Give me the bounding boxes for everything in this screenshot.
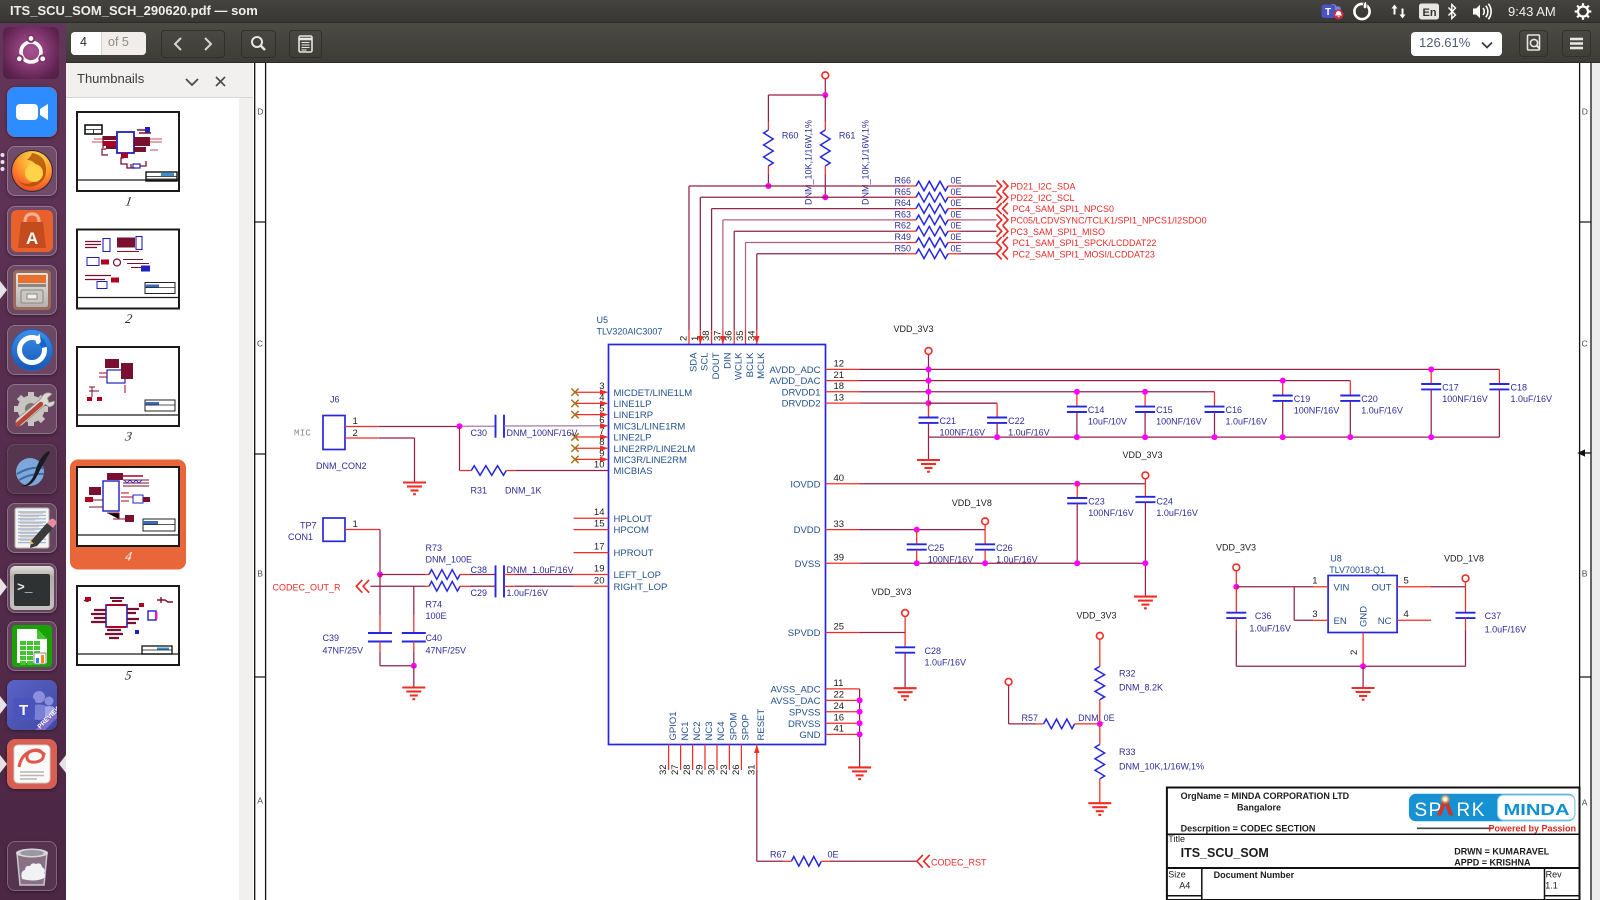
svg-text:3: 3 <box>123 429 134 444</box>
svg-text:DRVSS: DRVSS <box>788 719 821 730</box>
node PD21_I2C_SDA <box>997 180 1076 191</box>
svg-text:R50: R50 <box>894 243 911 253</box>
svg-text:15: 15 <box>594 519 605 530</box>
svg-text:0E: 0E <box>951 209 962 219</box>
wire OUT net <box>1397 576 1465 587</box>
capacitor C24 1.0uF/16V <box>1135 484 1198 597</box>
bluetooth <box>1449 5 1456 19</box>
resistor R73 DNM_100E <box>380 543 496 579</box>
menu button <box>1562 30 1591 57</box>
svg-text:C28: C28 <box>925 646 942 656</box>
wire GND pin2 <box>1349 632 1363 666</box>
svg-text:DRWN = KUMARAVEL: DRWN = KUMARAVEL <box>1454 846 1549 856</box>
svg-text:R31: R31 <box>471 486 488 496</box>
svg-text:DRVDD1: DRVDD1 <box>782 387 821 398</box>
svg-text:21: 21 <box>834 370 845 381</box>
capacitor C38 DNM_1.0uF/16V <box>471 565 609 597</box>
svg-text:1.0uF/16V: 1.0uF/16V <box>507 588 549 598</box>
junction TP7/left_lop <box>377 572 383 578</box>
capacitor C26 1.0uF/16V <box>975 530 1038 565</box>
label VDD_3V3 r32 <box>1077 611 1117 621</box>
wire bottom rail caps <box>929 436 1500 438</box>
wire bus PC2_SAM_SPI1_MOSI/LCDDAT23 <box>757 254 906 345</box>
svg-text:1.0uF/16V: 1.0uF/16V <box>1226 417 1268 427</box>
svg-text:DNM_10K,1/16W,1%: DNM_10K,1/16W,1% <box>1119 761 1204 771</box>
svg-text:PC3_SAM_SPI1_MISO: PC3_SAM_SPI1_MISO <box>1011 227 1106 237</box>
svg-text:CON1: CON1 <box>288 532 313 542</box>
capacitor C14 10uF/10V <box>1067 389 1127 440</box>
svg-text:1: 1 <box>690 336 701 341</box>
svg-text:MIC3R/LINE2RM: MIC3R/LINE2RM <box>614 455 687 466</box>
wire rail pin18 <box>860 391 1215 393</box>
svg-text:U5: U5 <box>597 315 609 325</box>
svg-text:DNM_8.2K: DNM_8.2K <box>1119 682 1163 692</box>
svg-text:AVSS_ADC: AVSS_ADC <box>771 685 821 696</box>
svg-text:B: B <box>1582 569 1588 579</box>
svg-text:38: 38 <box>701 330 712 341</box>
svg-text:14: 14 <box>594 507 605 518</box>
capacitor C25 100NF/16V <box>907 530 974 565</box>
svg-text:C36: C36 <box>1255 611 1272 621</box>
testpoint TP7 CON1 <box>288 518 358 542</box>
off-sheet arrow on right frame <box>1577 449 1591 456</box>
svg-text:18: 18 <box>834 381 845 392</box>
svg-text:EN: EN <box>1334 616 1347 627</box>
svg-text:NC1: NC1 <box>680 721 691 740</box>
svg-text:DNM_10K,1/16W,1%: DNM_10K,1/16W,1% <box>861 120 871 205</box>
svg-text:D: D <box>1582 107 1588 117</box>
wire top node <box>768 94 825 96</box>
svg-text:1.0uF/16V: 1.0uF/16V <box>1156 508 1198 518</box>
junction R61/bus <box>822 194 828 200</box>
svg-text:C: C <box>1582 339 1588 349</box>
pin 12 AVDD_ADC <box>769 359 859 376</box>
power VDD_1V8 dvdd <box>982 518 989 530</box>
svg-text:OUT: OUT <box>1371 582 1391 593</box>
pin 9 MIC3R/LINE2RM <box>571 448 687 466</box>
svg-text:Powered by Passion: Powered by Passion <box>1488 824 1576 834</box>
capacitor C29 1.0uF/16V <box>471 586 609 598</box>
svg-text:VIN: VIN <box>1334 582 1350 593</box>
svg-text:R62: R62 <box>894 221 911 231</box>
resistor R31 DNM_1K <box>460 426 609 495</box>
op-amp U5 TLV320AIC3007 body <box>597 315 826 745</box>
pin arrows top <box>698 336 760 345</box>
svg-text:DVSS: DVSS <box>795 559 821 570</box>
pin 30 NC4 <box>707 721 728 775</box>
prev/next buttons <box>161 30 225 58</box>
pin 20 RIGHT_LOP <box>594 575 667 593</box>
svg-text:VDD_3V3: VDD_3V3 <box>1123 450 1163 460</box>
pin 3 MICDET/LINE1LM <box>571 381 692 399</box>
pin 14 HPLOUT <box>574 507 653 525</box>
wire U8 ground rail <box>1236 663 1465 669</box>
pin 16 DRVSS <box>788 712 860 729</box>
resistor R65 0E <box>894 187 996 202</box>
svg-text:J6: J6 <box>330 395 340 405</box>
capacitor C21 100NF/16V <box>919 403 986 438</box>
resistor R60 <box>764 95 814 205</box>
svg-text:En: En <box>1423 7 1437 19</box>
wire VIN net <box>1233 576 1328 590</box>
pin 29 NC3 <box>695 721 716 775</box>
capacitor C17 100NF/16V <box>1421 366 1488 440</box>
svg-text:0E: 0E <box>951 187 962 197</box>
svg-text:U8: U8 <box>1330 554 1342 564</box>
junction c25 <box>914 527 920 533</box>
svg-text:33: 33 <box>834 519 845 530</box>
svg-text:HPLOUT: HPLOUT <box>614 514 653 525</box>
svg-text:DNM_0E: DNM_0E <box>1078 713 1115 723</box>
svg-text:VDD_1V8: VDD_1V8 <box>1444 554 1484 564</box>
pin 41 GND <box>799 724 859 741</box>
pin 23 SPOM <box>719 712 740 775</box>
svg-text:C21: C21 <box>940 416 957 426</box>
svg-text:C: C <box>257 339 263 349</box>
svg-text:C25: C25 <box>928 543 945 553</box>
svg-text:Rev: Rev <box>1546 869 1563 879</box>
pin 21 AVDD_DAC <box>769 370 859 387</box>
resistor R61 <box>821 95 871 205</box>
power VDD_3V3 spvdd <box>902 610 909 633</box>
svg-text:DIN: DIN <box>722 352 733 369</box>
pin 28 NC2 <box>682 721 703 775</box>
svg-text:DNM_100NF/16V: DNM_100NF/16V <box>507 428 578 438</box>
wire EN net <box>1294 587 1328 621</box>
svg-text:23: 23 <box>719 764 730 775</box>
svg-text:SPOP: SPOP <box>741 714 752 740</box>
node CODEC_OUT_R <box>273 580 370 593</box>
pin 17 HPROUT <box>574 542 654 560</box>
svg-text:R60: R60 <box>782 131 799 141</box>
svg-text:IOVDD: IOVDD <box>790 479 820 490</box>
svg-text:NC4: NC4 <box>716 721 727 740</box>
svg-text:C26: C26 <box>996 543 1013 553</box>
power VDD_3V3 u8 <box>1233 564 1240 587</box>
svg-text:MICBIAS: MICBIAS <box>614 466 653 477</box>
svg-text:DRVDD2: DRVDD2 <box>782 399 821 410</box>
svg-text:R73: R73 <box>426 543 443 553</box>
pin 31 RESET <box>746 709 767 775</box>
svg-text:1.0uF/16V: 1.0uF/16V <box>1008 428 1050 438</box>
svg-text:30: 30 <box>707 764 718 775</box>
resistor R66 0E <box>894 176 996 191</box>
pin 32 GPIO1 <box>658 711 679 775</box>
svg-text:MCLK: MCLK <box>756 352 767 379</box>
svg-text:24: 24 <box>834 701 845 712</box>
ground C39/C40 <box>402 666 425 699</box>
page number entry <box>71 32 146 55</box>
sheet frame left border <box>255 63 266 900</box>
power VDD_1V8 r57 <box>1005 678 1035 724</box>
wire SPVDD net <box>860 632 906 634</box>
svg-text:1.0uF/16V: 1.0uF/16V <box>1249 624 1291 634</box>
connector J6 DNM_CON2 <box>294 395 367 472</box>
resistor R32 DNM_8.2K <box>1095 632 1163 724</box>
label VDD_1V8 <box>952 498 992 508</box>
gear <box>1575 3 1592 20</box>
junction C40 ground <box>411 663 417 669</box>
wire bus PC4_SAM_SPI1_NPCS0 <box>712 209 906 345</box>
svg-text:20: 20 <box>594 575 605 586</box>
svg-text:GND: GND <box>799 730 820 741</box>
svg-text:Document Number: Document Number <box>1214 870 1295 880</box>
svg-text:39: 39 <box>834 553 845 564</box>
svg-text:SPOM: SPOM <box>729 712 740 740</box>
svg-text:TLV320AIC3007: TLV320AIC3007 <box>597 327 663 337</box>
svg-text:29: 29 <box>695 764 706 775</box>
svg-text:DVDD: DVDD <box>794 525 821 536</box>
svg-text:40: 40 <box>834 473 845 484</box>
power VDD_1V8 out <box>1444 554 1484 587</box>
svg-text:C20: C20 <box>1361 394 1378 404</box>
svg-text:0E: 0E <box>951 232 962 242</box>
svg-text:2: 2 <box>124 311 134 326</box>
svg-text:NC2: NC2 <box>692 721 703 740</box>
pin 33 DVDD <box>794 519 860 536</box>
svg-text:PC1_SAM_SPI1_SPCK/LCDDAT22: PC1_SAM_SPI1_SPCK/LCDDAT22 <box>1013 238 1157 248</box>
resistor R67 0E <box>770 850 917 866</box>
svg-text:1.0uF/16V: 1.0uF/16V <box>925 657 967 667</box>
capacitor C18 1.0uF/16V <box>1489 369 1552 437</box>
svg-text:Bangalore: Bangalore <box>1237 802 1281 812</box>
svg-text:R57: R57 <box>1022 713 1039 723</box>
wire DVSS net <box>860 560 1149 566</box>
svg-text:T: T <box>19 702 28 719</box>
power VDD_3V3 c24 <box>1142 472 1149 484</box>
svg-text:Title: Title <box>1168 834 1185 844</box>
svg-text:1: 1 <box>353 519 358 530</box>
ground U8 <box>1352 666 1375 699</box>
svg-text:1.0uF/16V: 1.0uF/16V <box>1485 625 1527 635</box>
svg-text:A: A <box>1582 798 1588 808</box>
svg-text:16: 16 <box>834 712 845 723</box>
capacitor C37 1.0uF/16V <box>1456 587 1527 667</box>
svg-text:DOUT: DOUT <box>711 352 722 379</box>
svg-text:1: 1 <box>1312 576 1317 587</box>
wire rail pin12 <box>860 368 1500 370</box>
pin 8 LINE2RP/LINE2LM <box>571 437 695 455</box>
node PD22_I2C_SCL <box>997 192 1075 203</box>
svg-text:NC: NC <box>1378 616 1392 627</box>
main viewer background <box>253 63 1600 900</box>
sheet frame right border <box>1580 63 1591 900</box>
svg-text:MINDA: MINDA <box>1504 802 1570 819</box>
mattermost tray icon <box>1354 4 1369 19</box>
svg-text:LINE1RP: LINE1RP <box>614 410 654 421</box>
svg-text:R66: R66 <box>894 176 911 186</box>
svg-text:PC4_SAM_SPI1_NPCS0: PC4_SAM_SPI1_NPCS0 <box>1013 204 1115 214</box>
wire bus PC3_SAM_SPI1_MISO <box>734 231 905 344</box>
capacitor C22 1.0uF/16V <box>929 403 1050 440</box>
svg-text:SCL: SCL <box>700 353 711 371</box>
pin 5 LINE1RP <box>571 404 653 422</box>
pin 7 LINE2LP <box>571 426 651 444</box>
svg-text:CODEC_OUT_R: CODEC_OUT_R <box>273 582 342 592</box>
pin 25 SPVDD <box>788 622 860 639</box>
svg-text:25: 25 <box>834 622 845 633</box>
resistor R63 0E <box>894 209 996 224</box>
svg-text:VDD_3V3: VDD_3V3 <box>1077 611 1117 621</box>
svg-text:1: 1 <box>353 416 358 427</box>
svg-text:1: 1 <box>124 194 133 209</box>
svg-text:100NF/16V: 100NF/16V <box>1442 394 1488 404</box>
svg-text:TLV70018-Q1: TLV70018-Q1 <box>1329 565 1385 575</box>
svg-text:C38: C38 <box>471 565 488 575</box>
svg-text:C39: C39 <box>323 633 340 643</box>
wire rail pin21 <box>860 380 1351 382</box>
search button <box>241 30 276 58</box>
svg-text:0E: 0E <box>951 221 962 231</box>
svg-text:0E: 0E <box>951 176 962 186</box>
network arrows <box>1392 5 1398 15</box>
title block text <box>1168 791 1562 891</box>
svg-text:AVDD_DAC: AVDD_DAC <box>769 376 820 387</box>
svg-text:37: 37 <box>712 330 723 341</box>
capacitor C23 100NF/16V <box>1067 484 1134 564</box>
svg-text:LINE1LP: LINE1LP <box>614 399 652 410</box>
svg-text:R63: R63 <box>894 209 911 219</box>
pin 36 WCLK <box>724 330 745 380</box>
capacitor C19 100NF/16V <box>1273 378 1340 441</box>
svg-text:100NF/16V: 100NF/16V <box>1088 508 1134 518</box>
svg-text:DNM_1.0uF/16V: DNM_1.0uF/16V <box>507 565 574 575</box>
svg-text:SP: SP <box>1415 800 1443 821</box>
svg-text:10: 10 <box>594 460 605 471</box>
wire bus PC1_SAM_SPI1_SPCK/LCDDAT22 <box>746 243 906 345</box>
capacitor C30 DNM_100NF/16V <box>471 415 609 439</box>
svg-text:R61: R61 <box>839 131 856 141</box>
resistor R64 0E <box>894 198 996 213</box>
svg-text:CODEC_RST: CODEC_RST <box>931 858 987 868</box>
svg-text:LEFT_LOP: LEFT_LOP <box>614 570 662 581</box>
junction r57/r32 <box>1097 721 1103 727</box>
svg-text:R64: R64 <box>894 198 911 208</box>
svg-text:T: T <box>1325 7 1331 18</box>
svg-text:1.1: 1.1 <box>1545 880 1558 890</box>
svg-text:3: 3 <box>1312 609 1317 620</box>
svg-text:RESET: RESET <box>756 709 767 741</box>
svg-text:SDA: SDA <box>688 352 699 372</box>
svg-text:DNM_1K: DNM_1K <box>505 486 542 496</box>
svg-text:10uF/10V: 10uF/10V <box>1088 417 1127 427</box>
svg-text:AVDD_ADC: AVDD_ADC <box>769 365 820 376</box>
svg-text:MIC: MIC <box>294 427 311 438</box>
power VDD_3V3 rail label <box>894 324 934 369</box>
svg-text:R49: R49 <box>894 232 911 242</box>
En keyboard <box>1419 4 1439 20</box>
svg-text:11: 11 <box>834 678 844 689</box>
svg-text:Descrpition = CODEC SECTION: Descrpition = CODEC SECTION <box>1181 824 1316 834</box>
svg-text:100E: 100E <box>426 611 447 621</box>
svg-text:100NF/16V: 100NF/16V <box>1156 417 1202 427</box>
svg-text:31: 31 <box>746 764 757 775</box>
svg-text:VDD_3V3: VDD_3V3 <box>1216 543 1256 553</box>
svg-text:R65: R65 <box>894 187 911 197</box>
spark minda logo <box>1409 793 1576 833</box>
svg-text:LINE2LP: LINE2LP <box>614 433 652 444</box>
junction R60/bus <box>765 183 771 189</box>
svg-text:C29: C29 <box>471 588 488 598</box>
pin 26 SPOP <box>731 714 752 775</box>
speaker <box>1473 5 1480 19</box>
capacitor C16 1.0uF/16V <box>1205 392 1268 440</box>
svg-text:VDD_1V8: VDD_1V8 <box>952 498 992 508</box>
svg-text:C37: C37 <box>1485 611 1502 621</box>
regulator U8 TLV70018-Q1 body <box>1328 554 1397 633</box>
svg-text:C23: C23 <box>1088 497 1105 507</box>
svg-text:MIC3L/LINE1RM: MIC3L/LINE1RM <box>614 421 686 432</box>
svg-text:C15: C15 <box>1156 405 1173 415</box>
pin 15 HPCOM <box>574 519 649 537</box>
capacitor C39 47NF/25V <box>323 575 414 666</box>
svg-text:34: 34 <box>746 330 757 341</box>
svg-text:ITS_SCU_SOM: ITS_SCU_SOM <box>1181 846 1269 860</box>
svg-text:2: 2 <box>353 428 358 439</box>
svg-text:C22: C22 <box>1008 416 1025 426</box>
svg-text:MICDET/LINE1LM: MICDET/LINE1LM <box>614 388 693 399</box>
label VDD_3V3 u8 <box>1216 543 1256 553</box>
svg-text:22: 22 <box>834 690 845 701</box>
svg-text:OrgName = MINDA CORPORATION LT: OrgName = MINDA CORPORATION LTD <box>1181 791 1350 801</box>
svg-text:A: A <box>257 796 263 806</box>
pin 22 AVSS_DAC <box>771 690 860 707</box>
svg-text:19: 19 <box>594 564 605 575</box>
svg-text:BCLK: BCLK <box>745 352 756 377</box>
pin 35 BCLK <box>735 330 756 377</box>
wire bus PC05/LCDVSYNC/TCLK1/SPI1_NPCS1/I2SDO0 <box>723 220 906 345</box>
pin 11 AVSS_ADC <box>771 678 860 695</box>
wire rail pin13 <box>860 402 998 404</box>
wire vdd feed vertical <box>926 366 932 417</box>
resistor R50 0E <box>894 243 996 258</box>
ground below C28 <box>894 688 917 700</box>
svg-text:R74: R74 <box>426 599 443 609</box>
svg-text:B: B <box>257 569 263 579</box>
svg-text:R32: R32 <box>1119 668 1136 678</box>
pin 19 LEFT_LOP <box>594 564 661 582</box>
svg-text:0E: 0E <box>828 850 839 860</box>
pin 1 SCL <box>690 336 711 371</box>
pin 38 DOUT <box>701 330 722 379</box>
svg-text:VDD_3V3: VDD_3V3 <box>872 587 912 597</box>
svg-text:PD22_I2C_SCL: PD22_I2C_SCL <box>1011 193 1075 203</box>
pin 4 LINE1LP <box>571 392 651 410</box>
resistor R62 0E <box>894 221 996 236</box>
node CODEC_RST <box>917 855 987 868</box>
node PC2_SAM_SPI1_MOSI/LCDDAT23 <box>997 248 1155 259</box>
svg-text:C18: C18 <box>1511 383 1528 393</box>
svg-text:1.0uF/16V: 1.0uF/16V <box>1511 394 1553 404</box>
svg-text:C24: C24 <box>1156 497 1173 507</box>
ground J6 <box>403 483 426 495</box>
svg-text:TP7: TP7 <box>300 521 317 531</box>
label VDD_3V3 mid <box>1123 450 1163 460</box>
pin 34 MCLK <box>746 330 767 378</box>
svg-text:0E: 0E <box>951 243 962 253</box>
svg-text:26: 26 <box>731 764 742 775</box>
svg-text:SPVDD: SPVDD <box>788 628 821 639</box>
svg-text:HPCOM: HPCOM <box>614 525 649 536</box>
svg-text:GND: GND <box>1359 606 1370 627</box>
svg-text:R33: R33 <box>1119 747 1136 757</box>
annotate button <box>289 30 322 58</box>
svg-text:35: 35 <box>735 330 746 341</box>
svg-text:VDD_3V3: VDD_3V3 <box>894 324 934 334</box>
svg-text:2: 2 <box>679 336 690 341</box>
svg-text:12: 12 <box>834 359 845 370</box>
svg-text:A4: A4 <box>1179 880 1190 890</box>
